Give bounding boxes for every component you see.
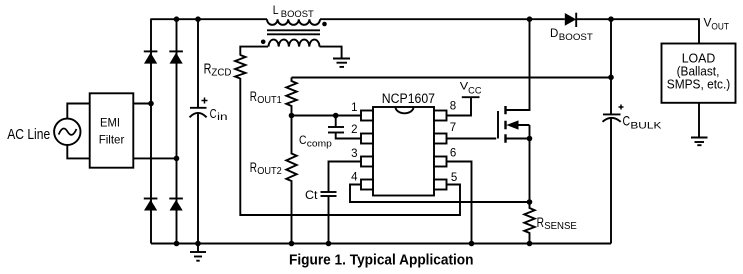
node EMI top input — [148, 101, 154, 107]
wire pin 4 to CS node — [350, 185, 530, 203]
wire bridge left vertical — [150, 19, 152, 243]
svg-text:R: R — [250, 159, 257, 175]
node feedback divider — [289, 113, 295, 119]
capacitor Ct — [305, 188, 337, 202]
wire bottom rail — [151, 243, 611, 245]
wire feedback sense line — [292, 77, 612, 79]
svg-text:6: 6 — [450, 148, 456, 160]
wire AC source top lead — [67, 104, 89, 119]
bridge diode D3 bottom-left — [144, 199, 158, 211]
wire top rail left segment — [150, 18, 267, 20]
wire pin 6 to ground rail — [447, 162, 472, 244]
svg-text:Filter: Filter — [99, 132, 125, 146]
svg-text:3: 3 — [351, 148, 357, 160]
svg-text:BOOST: BOOST — [559, 32, 594, 42]
ground aux winding — [333, 59, 350, 67]
capacitor Ccomp — [299, 127, 344, 148]
wire top rail right segment to load — [576, 19, 699, 43]
wire AC source bottom lead — [67, 145, 89, 159]
capacitor CBULK — [603, 105, 662, 131]
svg-text:AC Line: AC Line — [7, 126, 50, 143]
svg-text:BULK: BULK — [630, 121, 661, 131]
node top rail drain — [527, 16, 533, 22]
pin 5 — [434, 172, 457, 190]
phase dot secondary — [261, 40, 266, 45]
resistor RSENSE — [524, 202, 577, 244]
wire pin 8 to VCC — [447, 97, 472, 115]
svg-text:L: L — [273, 5, 279, 17]
wire load to ground — [698, 103, 700, 138]
resistor ROUT1 — [250, 78, 297, 116]
phase dot primary — [322, 22, 327, 27]
node top rail Cin — [195, 16, 201, 22]
svg-text:SENSE: SENSE — [544, 221, 577, 232]
wire pin 3 to Ct — [329, 162, 362, 193]
node sense tap — [608, 75, 614, 81]
node rail Cin bottom — [195, 241, 201, 247]
pin 1 — [351, 102, 373, 121]
svg-text:EMI: EMI — [100, 116, 120, 130]
pin 8 — [434, 100, 456, 120]
wire EMI filter output top — [133, 103, 151, 105]
svg-text:ZCD: ZCD — [211, 67, 231, 79]
svg-text:SMPS, etc.): SMPS, etc.) — [667, 77, 731, 91]
svg-text:D: D — [550, 28, 558, 40]
pin 2 — [351, 124, 373, 144]
svg-text:C: C — [299, 135, 307, 147]
bridge diode D2 top-right — [169, 51, 183, 63]
wire secondary to ground — [320, 47, 342, 59]
svg-text:R: R — [537, 214, 544, 230]
node MOSFET source — [527, 136, 533, 142]
pin 3 — [351, 148, 373, 167]
node top rail CBULK — [608, 16, 614, 22]
capacitor Cin — [190, 98, 228, 124]
svg-text:2: 2 — [351, 124, 357, 136]
svg-text:NCP1607: NCP1607 — [382, 91, 435, 106]
svg-text:8: 8 — [450, 100, 456, 112]
svg-text:BOOST: BOOST — [281, 9, 315, 19]
svg-text:OUT2: OUT2 — [257, 166, 282, 177]
wire output riser lower — [610, 119, 612, 244]
svg-text:(Ballast,: (Ballast, — [677, 64, 720, 78]
node rail bridge right bottom — [174, 241, 180, 247]
svg-text:1: 1 — [351, 102, 357, 114]
node rail pin6 — [469, 241, 475, 247]
node CS RSENSE — [527, 199, 533, 205]
inductor LBOOST core — [267, 30, 320, 34]
node top rail bridge right — [174, 16, 180, 22]
wire top rail middle segment — [320, 18, 565, 20]
svg-text:4: 4 — [351, 171, 358, 183]
inductor ZCD secondary winding — [269, 40, 320, 47]
wire Ct to bottom rail — [328, 196, 330, 244]
node rail Ct — [326, 241, 332, 247]
wire node A to pin 1 — [292, 115, 362, 117]
svg-text:V: V — [704, 16, 712, 30]
inductor LBOOST primary winding — [267, 19, 320, 25]
svg-text:Figure 1. Typical Application: Figure 1. Typical Application — [289, 252, 474, 269]
wire RZCD to pin 5 — [240, 78, 460, 215]
svg-text:OUT: OUT — [711, 21, 729, 32]
svg-text:comp: comp — [307, 138, 332, 148]
pin 7 — [434, 122, 456, 144]
wire Cin branch lower — [197, 114, 199, 244]
svg-text:in: in — [217, 112, 228, 123]
wire pin 7 to gate — [447, 138, 497, 140]
wire Ccomp to pin 2 — [336, 133, 361, 139]
op-amp U1 NCP1607 body — [373, 91, 435, 196]
svg-text:C: C — [210, 107, 217, 121]
wire EMI filter output bottom — [133, 157, 176, 159]
svg-text:Ct: Ct — [305, 188, 318, 202]
ground main rail — [190, 244, 206, 261]
pin 6 — [434, 148, 456, 167]
svg-text:CC: CC — [468, 85, 482, 95]
VOUT label — [704, 16, 730, 33]
node rail RSENSE — [527, 241, 533, 247]
inductor LBOOST label — [273, 5, 315, 19]
wire secondary to RZCD — [240, 47, 268, 56]
resistor RZCD — [204, 55, 246, 79]
wire Cin branch upper — [197, 19, 199, 107]
node Ccomp tap — [333, 113, 339, 119]
svg-text:OUT1: OUT1 — [257, 95, 282, 106]
bridge diode D4 bottom-right — [169, 199, 183, 211]
ground load — [691, 138, 708, 146]
wire output riser upper — [610, 19, 612, 114]
VCC supply — [460, 81, 482, 98]
transistor Q1 MOSFET — [498, 19, 530, 202]
pin 4 — [351, 171, 373, 189]
diode DBOOST — [550, 13, 593, 42]
svg-text:R: R — [250, 88, 257, 104]
bridge diode D1 top-left — [144, 51, 158, 63]
node rail ROUT2 — [289, 241, 295, 247]
wire bridge right vertical — [176, 19, 178, 243]
node EMI bottom input — [174, 156, 180, 162]
svg-text:C: C — [623, 113, 631, 129]
EMI filter box — [90, 93, 134, 167]
svg-text:7: 7 — [450, 122, 456, 134]
wire Ccomp top stub — [335, 116, 337, 128]
resistor ROUT2 — [250, 116, 297, 244]
svg-text:5: 5 — [451, 172, 457, 184]
svg-text:R: R — [204, 60, 212, 77]
LOAD box — [662, 44, 736, 103]
AC source V1 — [54, 119, 80, 145]
